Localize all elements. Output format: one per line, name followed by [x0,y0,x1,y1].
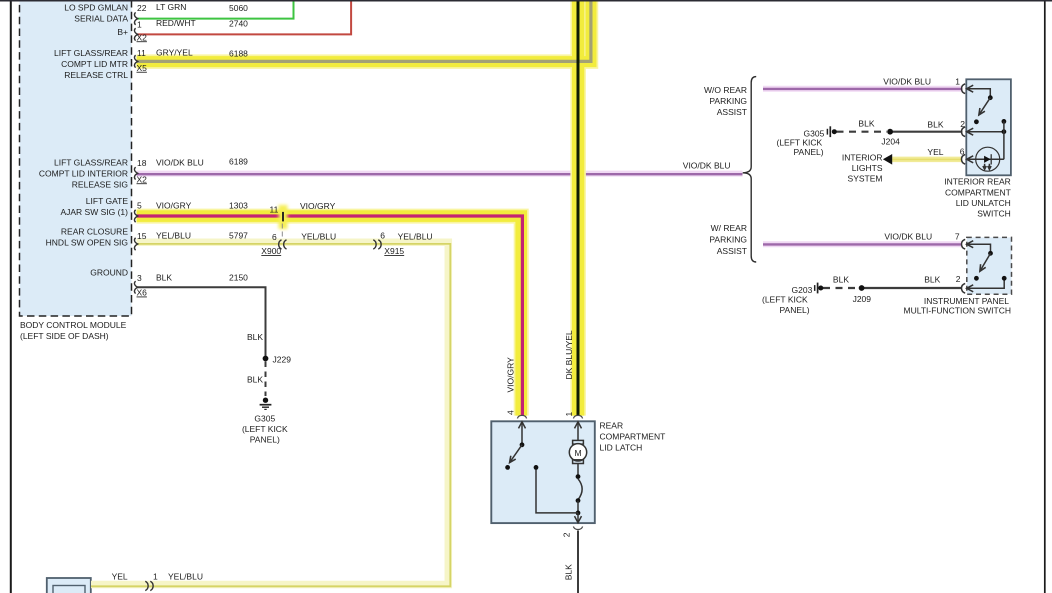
svg-text:6: 6 [960,147,965,157]
body control module box [20,0,132,316]
wire YEL/BLU glow path [91,242,448,584]
svg-text:RELEASE CTRL: RELEASE CTRL [64,70,128,80]
switch1 pin 6 connector [962,155,966,165]
svg-text:X915: X915 [384,246,404,256]
highlight halo GRY/YEL [137,0,592,62]
ground G305 upper (chassis) [827,126,836,137]
latch motor lead [577,464,579,477]
interior rear compartment lid unlatch switch box [966,79,1011,175]
svg-text:X900: X900 [261,246,281,256]
switch2 pin 2 arrow and line [967,285,974,292]
svg-text:REAR CLOSURE: REAR CLOSURE [61,227,128,237]
latch pin 1 arrow [575,422,582,429]
switch1 pin 6 arrow and line [967,156,974,163]
svg-text:PANEL): PANEL) [780,305,810,315]
svg-text:VIO/GRY: VIO/GRY [156,200,192,210]
svg-text:PANEL): PANEL) [794,147,824,157]
connector 11 inline on VIO/GRY [279,205,288,240]
svg-text:BLK: BLK [247,374,263,384]
bottom-left component box [47,578,91,593]
svg-text:INTERIOR REAR: INTERIOR REAR [944,177,1011,187]
svg-text:M: M [574,448,581,458]
svg-text:INTERIOR: INTERIOR [842,153,883,163]
svg-text:1: 1 [955,76,960,86]
svg-text:AJAR SW SIG (1): AJAR SW SIG (1) [60,207,128,217]
svg-text:VIO/DK BLU: VIO/DK BLU [156,158,204,168]
svg-text:RED/WHT: RED/WHT [156,18,196,28]
svg-text:(LEFT KICK: (LEFT KICK [777,137,823,147]
latch pin 2 connector [573,527,582,530]
svg-text:BLK: BLK [833,274,849,284]
wire BLK 2150 BCM ground [137,287,266,356]
svg-text:VIO/DK BLU: VIO/DK BLU [883,76,931,86]
svg-text:G305: G305 [254,414,275,424]
switch1 LED [976,147,1000,171]
svg-text:X2: X2 [137,174,148,184]
latch pin 4 connector [517,415,526,418]
top page border over bands [0,0,1052,2]
latch arc contact [578,479,582,500]
svg-text:YEL: YEL [927,147,943,157]
svg-text:COMPARTMENT: COMPARTMENT [945,187,1011,197]
svg-text:5797: 5797 [229,231,248,241]
svg-text:15: 15 [137,231,147,241]
highlight halo VIO/GRY [137,216,522,416]
svg-text:COMPT LID INTERIOR: COMPT LID INTERIOR [39,169,128,179]
svg-text:1303: 1303 [229,200,248,210]
svg-text:7: 7 [955,231,960,241]
BCM pin 18 connector [134,167,137,179]
svg-text:YEL/BLU: YEL/BLU [156,231,191,241]
splice J204 [887,129,893,135]
svg-text:BLK: BLK [156,273,172,283]
wire BLK J204 to pin 2 [890,131,962,133]
svg-text:BLK: BLK [247,332,263,342]
svg-text:J204: J204 [881,136,900,146]
svg-text:BODY CONTROL MODULE: BODY CONTROL MODULE [20,320,127,330]
BCM pin 22 connector [134,12,137,24]
svg-text:(LEFT KICK: (LEFT KICK [242,424,288,434]
wire VIO/DK BLU 6189 (BCM to brace) [137,171,743,177]
wire DK BLU/YEL core [577,0,580,416]
svg-text:1: 1 [564,412,574,417]
right page border [1044,0,1046,593]
switch2 pin 2 connector [962,284,966,294]
svg-text:LID UNLATCH: LID UNLATCH [956,198,1011,208]
wire DK BLU/YEL highlight band [572,0,584,416]
svg-text:BLK: BLK [858,118,874,128]
svg-text:B+: B+ [117,27,128,37]
left page border [10,0,12,593]
svg-text:VIO/GRY: VIO/GRY [300,201,336,211]
svg-text:LID LATCH: LID LATCH [600,442,643,452]
wire GRY/YEL core [137,0,591,61]
ground G305 lower (earth symbol) [260,398,272,410]
svg-text:W/ REAR: W/ REAR [711,223,747,233]
svg-text:5060: 5060 [229,3,248,13]
BCM pin 3 connector [134,281,137,293]
svg-text:BLK: BLK [927,120,943,130]
svg-text:ASSIST: ASSIST [717,246,747,256]
switch2 blade [988,251,993,256]
svg-text:X2: X2 [137,32,148,42]
instrument panel multi-function switch box [967,237,1012,294]
svg-text:GRY/YEL: GRY/YEL [156,48,193,58]
svg-text:PARKING: PARKING [709,96,747,106]
wire BLK J204 dashed [837,131,888,133]
svg-text:VIO/GRY: VIO/GRY [506,357,516,393]
svg-text:ASSIST: ASSIST [717,107,747,117]
wire VIO/DK BLU to switch pin 1 [763,86,962,92]
latch L line to contact [536,469,578,513]
svg-text:18: 18 [137,158,147,168]
svg-text:BLK: BLK [924,274,940,284]
svg-text:COMPARTMENT: COMPARTMENT [600,431,666,441]
svg-text:6: 6 [380,230,385,240]
latch pin 2 arrow [577,513,579,523]
splice J209 [859,285,865,291]
svg-text:22: 22 [137,3,147,13]
svg-text:4: 4 [506,410,516,415]
BCM pin 5 connector [134,210,137,222]
svg-text:PARKING: PARKING [709,235,747,245]
switch1 pin 2 arrow and line [967,128,974,135]
svg-text:LIFT GLASS/REAR: LIFT GLASS/REAR [54,48,128,58]
svg-text:1: 1 [137,20,142,30]
BCM pin 15 connector [134,238,137,250]
svg-text:YEL: YEL [112,571,128,581]
switch1 pin 1 arrow and line [967,85,974,92]
svg-text:LIFT GLASS/REAR: LIFT GLASS/REAR [54,158,128,168]
svg-text:BLK: BLK [564,564,574,580]
connector X900 [279,240,287,249]
connector 1 bottom [145,581,153,590]
interior lights system arrow [883,154,892,165]
svg-text:LT GRN: LT GRN [156,2,186,12]
svg-text:YEL/BLU: YEL/BLU [168,572,203,582]
wire RED/WHT 2740 [137,0,352,34]
svg-text:VIO/DK BLU: VIO/DK BLU [683,160,731,170]
svg-text:2: 2 [960,119,965,129]
svg-text:11: 11 [270,205,279,215]
svg-text:6188: 6188 [229,49,248,59]
svg-text:(LEFT SIDE OF DASH): (LEFT SIDE OF DASH) [20,331,109,341]
wire YEL/BLU core path [91,244,450,586]
wire YEL to interior lights system [891,157,962,163]
switch2 pin 7 arrow and line [967,241,974,248]
svg-text:5: 5 [137,201,142,211]
svg-text:MULTI-FUNCTION SWITCH: MULTI-FUNCTION SWITCH [904,305,1012,315]
svg-text:HNDL SW OPEN SIG: HNDL SW OPEN SIG [46,238,128,248]
svg-text:LIFT GATE: LIFT GATE [86,196,129,206]
svg-text:2740: 2740 [229,19,248,29]
wire BLK J209 dashed [823,287,859,289]
svg-text:GROUND: GROUND [90,268,128,278]
wire VIO/GRY core [137,216,523,416]
latch pin 4 arrow [519,422,526,429]
svg-text:SERIAL DATA: SERIAL DATA [74,13,128,23]
BCM pin 11 connector [134,55,137,67]
svg-text:DK BLU/YEL: DK BLU/YEL [564,330,574,379]
svg-text:LO SPD GMLAN: LO SPD GMLAN [64,2,128,12]
svg-text:YEL/BLU: YEL/BLU [398,231,433,241]
rear compartment lid latch box [491,421,595,523]
top page border [0,0,1052,2]
highlight halo DK BLU/YEL [570,0,586,416]
wire BLK latch pin 2 down [577,531,579,593]
svg-text:W/O REAR: W/O REAR [704,85,747,95]
wire LT GRN 5060 [137,0,294,19]
svg-text:6: 6 [272,232,277,242]
svg-text:X6: X6 [137,288,148,298]
svg-text:1: 1 [153,572,158,582]
svg-text:LIGHTS: LIGHTS [852,163,883,173]
latch motor M [573,440,584,444]
svg-text:2: 2 [562,532,572,537]
wire BLK J209 to pin 2 [862,287,962,289]
latch ajar switch [520,442,525,447]
svg-text:VIO/DK BLU: VIO/DK BLU [884,231,932,241]
switch1 pin 1 connector [962,84,966,94]
svg-text:G203: G203 [792,285,813,295]
svg-text:11: 11 [137,48,146,58]
svg-text:YEL/BLU: YEL/BLU [301,231,336,241]
wire VIO/DK BLU to switch pin 7 [763,241,962,247]
svg-text:SYSTEM: SYSTEM [848,174,883,184]
switch2 pin 7 connector [962,239,966,249]
svg-text:6189: 6189 [229,157,248,167]
ground G203 (chassis) [815,283,824,294]
BCM pin 1 connector [134,28,137,40]
svg-text:SWITCH: SWITCH [977,209,1011,219]
svg-text:(LEFT KICK: (LEFT KICK [762,295,808,305]
connector X915 [373,240,381,249]
svg-text:3: 3 [137,273,142,283]
svg-text:REAR: REAR [600,420,624,430]
svg-text:J209: J209 [853,294,872,304]
wire BLK dashed J229 to G305 [265,362,267,397]
svg-text:PANEL): PANEL) [250,435,280,445]
switch1 blade [988,95,993,100]
brace [743,77,757,262]
switch1 pin 2 connector [962,127,966,137]
svg-text:J229: J229 [273,355,292,365]
svg-text:COMPT LID MTR: COMPT LID MTR [61,59,128,69]
wire VIO/GRY 1303 highlight band [137,216,522,416]
svg-text:2150: 2150 [229,273,248,283]
svg-text:RELEASE SIG: RELEASE SIG [72,180,128,190]
svg-text:2: 2 [956,274,961,284]
latch pin 1 connector [573,415,582,418]
splice J229 [263,356,269,362]
svg-text:X5: X5 [137,63,148,73]
wire GRY/YEL 6188 highlight band [137,0,592,62]
